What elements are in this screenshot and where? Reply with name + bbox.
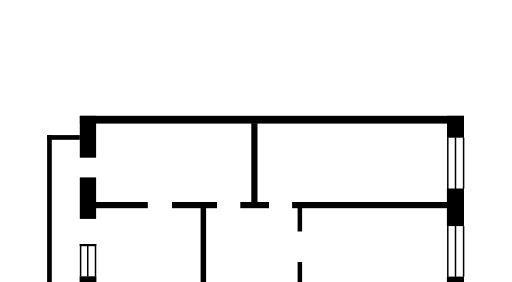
left wall pier 2	[80, 177, 96, 219]
left wall pier 1 (top corner pier)	[80, 116, 96, 158]
right wall segment below window W3	[447, 277, 464, 282]
interior horizontal wall segment C (long, meets right wall)	[292, 202, 447, 208]
exterior top wall	[80, 116, 464, 124]
right wall top pier	[447, 116, 464, 138]
interior vertical wall V3 upper segment (descends from segment C)	[298, 206, 303, 232]
interior horizontal wall segment B	[172, 202, 217, 208]
interior horizontal wall segment A	[95, 202, 148, 208]
window W3 in right wall: left frame line	[447, 226, 449, 277]
interior vertical wall V3 lower segment (to bottom edge)	[298, 262, 303, 282]
window W3 right frame line	[463, 226, 465, 277]
window W1 middle glazing line	[87, 244, 89, 276]
window W2 in right wall: left frame line	[447, 138, 449, 189]
window W2 middle glazing line	[455, 138, 457, 189]
interior vertical wall V2 (descends from segment B to bottom edge)	[201, 206, 207, 282]
window W1 right frame line	[95, 244, 97, 276]
window W2 right frame line	[463, 138, 465, 189]
interior wall V1 end cap	[240, 202, 269, 208]
balcony rail vertical line	[47, 135, 52, 282]
right wall middle block between windows	[447, 189, 464, 227]
window W3 middle glazing line	[455, 226, 457, 277]
left wall segment below window W1	[80, 276, 97, 282]
interior vertical wall V1 (room divider from top wall)	[251, 124, 257, 202]
balcony rail horizontal line	[47, 135, 80, 140]
window W1 in left wall: top cap line	[80, 244, 97, 246]
window W1 left frame line	[80, 244, 82, 276]
